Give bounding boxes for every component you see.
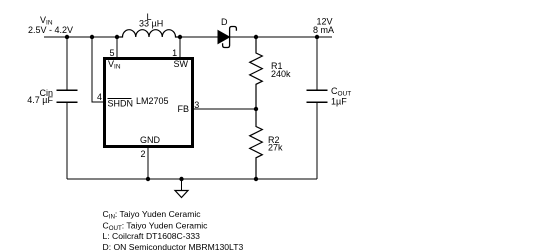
svg-text:4.7 µF: 4.7 µF xyxy=(27,95,53,105)
svg-text:L: Coilcraft DT1608C-333: L: Coilcraft DT1608C-333 xyxy=(103,231,201,241)
svg-text:GND: GND xyxy=(140,135,161,145)
svg-text:VIN: VIN xyxy=(108,59,121,71)
diode D schottky xyxy=(218,27,236,48)
svg-text:240k: 240k xyxy=(271,69,291,79)
svg-text:2.5V - 4.2V: 2.5V - 4.2V xyxy=(28,25,73,35)
svg-text:CIN: Taiyo Yuden Ceramic: CIN: Taiyo Yuden Ceramic xyxy=(103,209,202,221)
wire Cin bottom lead xyxy=(66,102,68,179)
wire Cin top lead xyxy=(66,37,68,90)
junction dot FB node xyxy=(254,107,258,111)
junction dot pin2 rail xyxy=(146,177,150,181)
svg-text:LM2705: LM2705 xyxy=(136,96,169,106)
wire pin5 stub xyxy=(116,37,118,57)
capacitor Cin xyxy=(57,90,78,102)
svg-text:5: 5 xyxy=(109,48,114,58)
wire pin2 gnd stub xyxy=(147,147,149,179)
svg-text:D: ON Semiconductor MBRM130LT3: D: ON Semiconductor MBRM130LT3 xyxy=(103,242,244,252)
svg-text:2: 2 xyxy=(140,149,145,159)
svg-text:27k: 27k xyxy=(268,143,283,153)
pin label SHDN inside with overbar xyxy=(108,99,134,109)
wire FB pin3 xyxy=(194,108,257,110)
junction dot shdn tap xyxy=(90,35,94,39)
svg-text:1: 1 xyxy=(172,48,177,58)
junction dot input cap tap xyxy=(65,35,69,39)
svg-text:SW: SW xyxy=(174,59,189,69)
junction dot R2 rail xyxy=(254,177,258,181)
svg-text:8 mA: 8 mA xyxy=(313,25,334,35)
svg-text:SHDN: SHDN xyxy=(108,99,134,109)
wire Cout bottom lead xyxy=(316,102,318,179)
resistor R2 xyxy=(250,109,263,179)
resistor R1 xyxy=(250,37,263,109)
junction dot ground xyxy=(179,177,183,181)
svg-text:4: 4 xyxy=(97,92,102,102)
junction dot output cap tap xyxy=(315,35,319,39)
svg-text:D: D xyxy=(221,17,228,27)
svg-text:33 µH: 33 µH xyxy=(139,19,163,29)
junction dot inductor right xyxy=(178,35,182,39)
wire inductor to diode xyxy=(180,36,218,38)
capacitor Cout xyxy=(307,90,328,102)
wire Cout top lead xyxy=(316,37,318,90)
junction dot R1 tap xyxy=(254,35,258,39)
ground symbol xyxy=(175,179,188,198)
svg-text:1µF: 1µF xyxy=(331,97,347,107)
op-amp U1 LM2705 body xyxy=(105,59,193,147)
wire input rail xyxy=(44,36,117,38)
wire diode to output xyxy=(230,36,333,38)
svg-text:FB: FB xyxy=(177,104,189,114)
wire pin1 stub xyxy=(179,37,181,57)
junction dot inductor left xyxy=(115,35,119,39)
wire ground rail xyxy=(67,178,317,180)
wire shdn vertical feed xyxy=(92,37,104,102)
inductor L1 xyxy=(117,30,180,37)
